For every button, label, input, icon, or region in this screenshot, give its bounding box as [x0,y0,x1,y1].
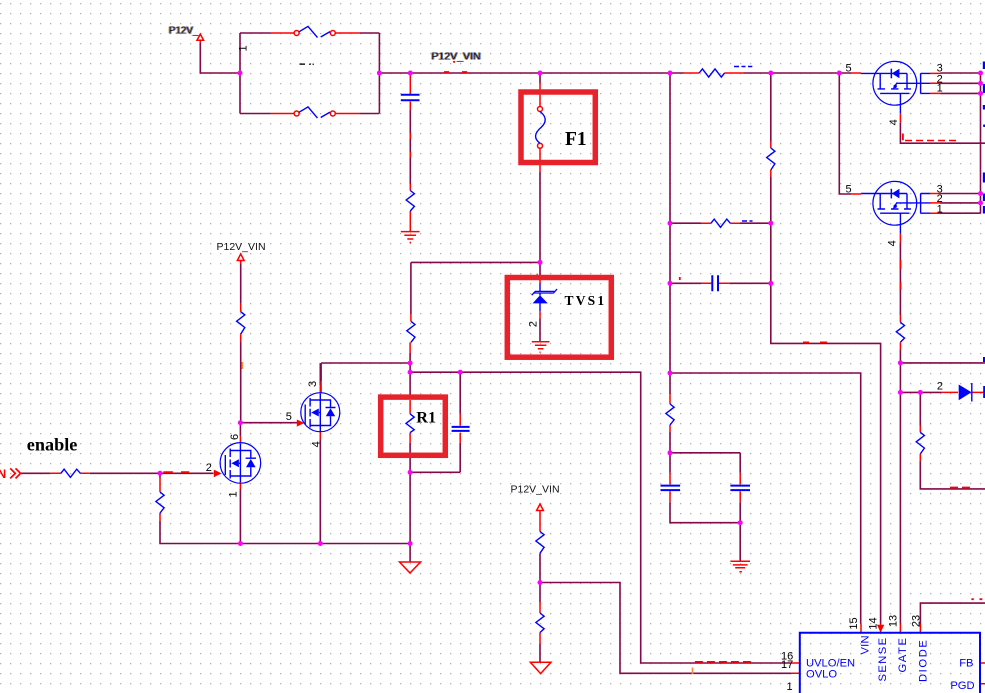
svg-text:2: 2 [527,321,539,327]
svg-text:PGD: PGD [950,680,974,692]
svg-text:6: 6 [229,434,241,440]
svg-text:P12V_VIN: P12V_VIN [217,241,266,253]
svg-text:23: 23 [910,615,922,627]
svg-text:P12V_VIN: P12V_VIN [511,484,560,496]
svg-text:R1: R1 [416,409,436,427]
svg-text:17: 17 [781,659,793,671]
svg-text:4: 4 [311,441,323,447]
svg-text:FB: FB [959,658,973,670]
svg-text:P12V_: P12V_ [169,25,199,36]
svg-text:P12V_VIN: P12V_VIN [431,51,480,63]
svg-text:5: 5 [846,183,852,195]
svg-text:F1: F1 [565,129,587,150]
svg-text:4: 4 [887,240,899,246]
svg-text:2: 2 [206,462,212,474]
svg-text:15: 15 [848,617,860,629]
svg-text:1: 1 [237,45,249,51]
svg-text:1: 1 [937,203,943,215]
svg-text:3: 3 [307,381,319,387]
svg-text:N: N [0,467,6,481]
svg-text:TVS1: TVS1 [565,293,607,308]
svg-text:5: 5 [846,63,852,75]
svg-text:5: 5 [286,411,292,423]
svg-text:2: 2 [937,380,943,392]
svg-text:VIN: VIN [859,635,871,654]
svg-text:SENSE: SENSE [877,637,889,682]
svg-text:enable: enable [27,435,78,455]
svg-text:1: 1 [787,681,793,693]
svg-text:OVLO: OVLO [806,669,837,681]
svg-text:4: 4 [888,119,900,125]
svg-text:1: 1 [937,83,943,95]
svg-text:1: 1 [228,491,240,497]
svg-text:13: 13 [888,615,900,627]
svg-text:14: 14 [868,617,880,629]
svg-text:DIODE: DIODE [918,639,930,682]
svg-text:GATE: GATE [897,636,909,672]
